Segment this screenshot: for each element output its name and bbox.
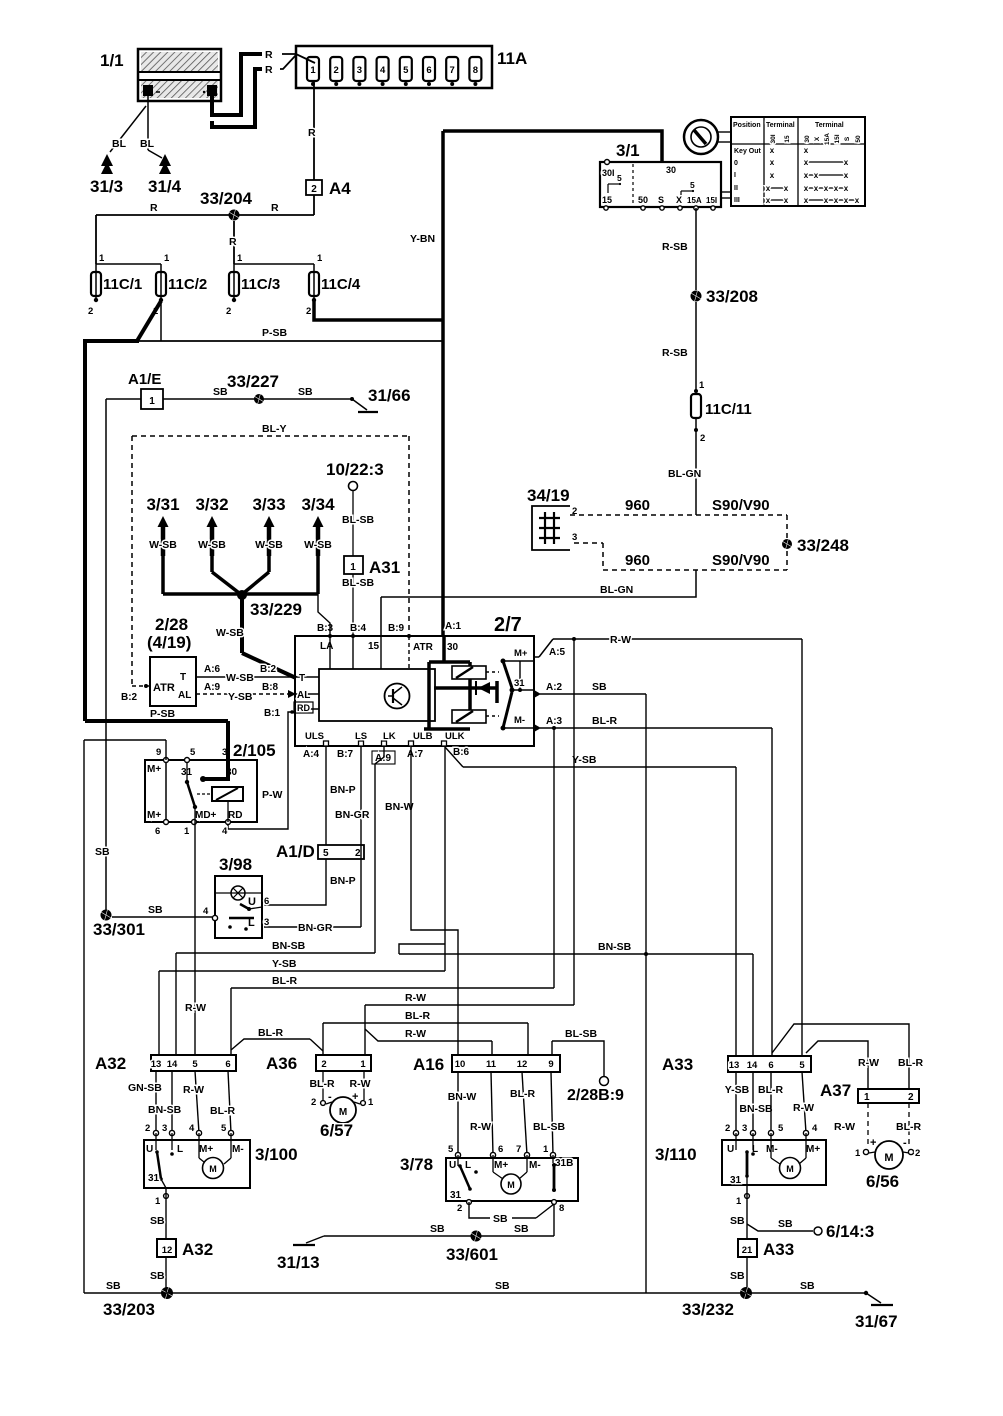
wire SB branch to 6/14:3 xyxy=(747,1218,874,1241)
svg-text:9: 9 xyxy=(548,1059,553,1070)
svg-text:11A: 11A xyxy=(497,49,527,68)
svg-text:5: 5 xyxy=(448,1144,454,1155)
svg-text:SB: SB xyxy=(800,1280,815,1292)
svg-text:P-W: P-W xyxy=(262,789,283,801)
wire BL-SB upper xyxy=(342,490,374,556)
svg-text:SB: SB xyxy=(592,681,607,693)
svg-text:MD+: MD+ xyxy=(195,810,217,821)
wire 11C/4 output to Y-BN xyxy=(314,300,443,320)
svg-text:21: 21 xyxy=(742,1245,753,1256)
connector A36 xyxy=(266,1054,371,1073)
fuse 11C/11 xyxy=(691,380,752,444)
svg-text:B:3: B:3 xyxy=(317,623,334,634)
svg-text:T: T xyxy=(299,673,305,684)
motor 6/57 xyxy=(320,1097,360,1140)
svg-text:3/100: 3/100 xyxy=(255,1145,298,1164)
table ignition positions xyxy=(731,117,865,206)
svg-text:SB: SB xyxy=(148,904,163,916)
svg-text:A:3: A:3 xyxy=(546,716,563,727)
wire 2/105 pin 1 down to A32 pin 5 xyxy=(185,822,206,1055)
svg-text:3/31: 3/31 xyxy=(146,495,179,514)
svg-text:(4/19): (4/19) xyxy=(147,633,191,652)
wire R-SB to fuse 11C/11 xyxy=(662,302,696,391)
svg-text:31/13: 31/13 xyxy=(277,1253,320,1272)
svg-text:Y-SB: Y-SB xyxy=(572,754,597,766)
svg-text:6: 6 xyxy=(155,826,160,837)
svg-text:U: U xyxy=(146,1144,153,1155)
svg-text:SB: SB xyxy=(150,1270,165,1282)
svg-text:1: 1 xyxy=(736,1196,742,1207)
svg-text:A:9: A:9 xyxy=(204,682,221,693)
wires to A37 xyxy=(772,1024,923,1089)
svg-text:7: 7 xyxy=(516,1144,521,1155)
svg-text:R-W: R-W xyxy=(405,992,426,1004)
ground 31/3 xyxy=(90,154,123,196)
svg-text:R-W: R-W xyxy=(793,1102,814,1114)
svg-text:M: M xyxy=(209,1164,217,1174)
svg-text:ATR: ATR xyxy=(153,682,175,694)
svg-text:A33: A33 xyxy=(662,1055,693,1074)
arrow to 3/31 xyxy=(146,495,179,556)
svg-text:S90/V90: S90/V90 xyxy=(712,497,770,514)
svg-text:x: x xyxy=(834,184,839,193)
svg-text:5: 5 xyxy=(323,848,329,859)
svg-text:Position: Position xyxy=(733,122,761,129)
svg-text:1: 1 xyxy=(164,253,170,264)
wire BL-R link A36 2 to A16 12 xyxy=(323,1010,528,1055)
wire P-SB upper horizontal xyxy=(139,327,443,341)
svg-text:2: 2 xyxy=(145,1123,150,1134)
connector A4 pin 2 xyxy=(306,179,351,198)
svg-text:BN-SB: BN-SB xyxy=(272,940,306,952)
svg-text:2: 2 xyxy=(88,306,93,317)
svg-text:33/227: 33/227 xyxy=(227,372,279,391)
svg-text:S: S xyxy=(844,136,851,141)
wire W-SB down to 2/7 T input xyxy=(216,595,296,678)
svg-text:W-SB: W-SB xyxy=(198,539,226,551)
svg-text:33/601: 33/601 xyxy=(446,1245,498,1264)
svg-text:12: 12 xyxy=(517,1059,528,1070)
svg-text:1: 1 xyxy=(864,1092,870,1103)
svg-text:x: x xyxy=(770,158,775,167)
window motor unit 3/78 xyxy=(400,1155,578,1201)
svg-text:W-SB: W-SB xyxy=(304,539,332,551)
wire BL-SB lower to 2/7 B:4 xyxy=(342,574,374,636)
svg-text:2: 2 xyxy=(355,848,361,859)
svg-text:1: 1 xyxy=(699,380,705,391)
svg-text:x: x xyxy=(770,171,775,180)
svg-text:R-W: R-W xyxy=(470,1121,491,1133)
svg-text:1: 1 xyxy=(155,1196,161,1207)
svg-text:14: 14 xyxy=(167,1059,178,1070)
arrow to 3/32 xyxy=(195,495,228,556)
svg-text:31: 31 xyxy=(148,1173,160,1184)
svg-text:A37: A37 xyxy=(820,1081,851,1100)
connector A37 xyxy=(820,1081,919,1103)
svg-text:RD: RD xyxy=(228,810,242,821)
window motor unit 3/110 xyxy=(655,1133,826,1186)
svg-text:R: R xyxy=(271,202,279,214)
svg-text:x: x xyxy=(804,171,809,180)
svg-text:3: 3 xyxy=(162,1123,167,1134)
svg-text:1: 1 xyxy=(368,1097,374,1108)
svg-text:1/1: 1/1 xyxy=(100,51,124,70)
wire dashed 960 S90/V90 upper xyxy=(570,497,787,515)
svg-text:6: 6 xyxy=(426,65,431,76)
connector A33 xyxy=(662,1055,811,1074)
svg-text:BL: BL xyxy=(112,138,127,150)
svg-text:SB: SB xyxy=(778,1218,793,1230)
svg-text:11: 11 xyxy=(486,1059,497,1070)
svg-text:2/7: 2/7 xyxy=(494,614,522,636)
svg-text:BL-GN: BL-GN xyxy=(668,468,701,480)
svg-text:R-W: R-W xyxy=(183,1084,204,1096)
wire R-W from 2/7 A:5 xyxy=(534,634,802,658)
svg-text:GN-SB: GN-SB xyxy=(128,1082,162,1094)
svg-text:S: S xyxy=(658,195,664,205)
svg-text:SB: SB xyxy=(106,1280,121,1292)
fuse 11A-8 xyxy=(469,57,481,86)
ground 31/66 xyxy=(350,386,411,412)
svg-text:50: 50 xyxy=(855,135,862,143)
svg-text:31B: 31B xyxy=(555,1158,573,1169)
fuse 11A-7 xyxy=(446,57,458,86)
svg-text:BL-Y: BL-Y xyxy=(262,423,287,435)
wire battery positive R feeds xyxy=(212,49,315,127)
wires A37 to motor 6/56 xyxy=(834,1103,921,1159)
switch 3/98 xyxy=(203,855,269,938)
svg-text:8: 8 xyxy=(559,1203,564,1214)
svg-text:X: X xyxy=(676,195,682,205)
svg-text:SB: SB xyxy=(493,1213,508,1225)
svg-text:BN-W: BN-W xyxy=(385,801,414,813)
svg-text:3/1: 3/1 xyxy=(616,141,640,160)
fuse 11A-3 xyxy=(353,57,365,86)
svg-text:6: 6 xyxy=(264,896,269,907)
splice 33/601 xyxy=(446,1231,498,1265)
svg-text:SB: SB xyxy=(730,1215,745,1227)
wire R-W right vertical to A33 5 xyxy=(801,639,803,1056)
svg-text:4: 4 xyxy=(203,906,209,917)
wire SB to 33/232 xyxy=(730,1257,747,1293)
svg-text:ATR: ATR xyxy=(413,642,434,653)
svg-text:M+: M+ xyxy=(494,1160,508,1171)
svg-text:2: 2 xyxy=(311,184,317,195)
ground 31/67 xyxy=(855,1291,898,1331)
svg-text:3/78: 3/78 xyxy=(400,1155,433,1174)
svg-text:LA: LA xyxy=(320,641,333,652)
svg-text:BL-R: BL-R xyxy=(758,1084,783,1096)
wire 3/110 pin1 SB down xyxy=(730,1185,749,1239)
svg-text:31: 31 xyxy=(730,1175,742,1186)
svg-text:15I: 15I xyxy=(706,196,717,205)
svg-text:1: 1 xyxy=(360,1059,366,1070)
connector A31 pin 1 xyxy=(344,556,400,577)
svg-text:x: x xyxy=(766,196,771,205)
key symbol of ignition switch xyxy=(684,120,731,198)
svg-text:x: x xyxy=(784,184,789,193)
svg-text:x: x xyxy=(844,184,849,193)
svg-text:-: - xyxy=(903,1137,907,1149)
svg-text:A:7: A:7 xyxy=(407,749,424,760)
central locking unit 2/7 outline xyxy=(295,614,534,746)
wire R-W bus to A36 1 xyxy=(365,637,576,1055)
svg-text:Terminal: Terminal xyxy=(815,122,844,129)
svg-text:1: 1 xyxy=(237,253,243,264)
svg-text:M: M xyxy=(786,1164,794,1174)
wire dashed right leg to 33/248 xyxy=(786,515,788,570)
svg-text:5: 5 xyxy=(690,180,695,190)
svg-text:AL: AL xyxy=(297,690,310,701)
svg-text:31/67: 31/67 xyxy=(855,1312,898,1331)
svg-text:x: x xyxy=(824,184,829,193)
svg-text:31: 31 xyxy=(514,678,525,689)
wire BL-GN from 11C/11 xyxy=(668,418,701,515)
2/105 relay coil xyxy=(212,787,243,822)
wire 3/78 pin2 pin8 SB link xyxy=(457,1200,564,1225)
svg-text:A33: A33 xyxy=(763,1240,794,1259)
svg-text:LS: LS xyxy=(355,731,367,742)
wire BN-P A1/D to 3/98 U xyxy=(264,859,356,905)
wire SB to 33/203 xyxy=(150,1257,166,1293)
svg-text:-: - xyxy=(328,1091,332,1103)
svg-text:x: x xyxy=(770,146,775,155)
svg-text:x: x xyxy=(804,146,809,155)
fuse 11A-6 xyxy=(423,57,435,86)
svg-text:5: 5 xyxy=(192,1059,198,1070)
svg-text:2: 2 xyxy=(306,306,311,317)
svg-text:6/57: 6/57 xyxy=(320,1121,353,1140)
svg-text:13: 13 xyxy=(729,1060,740,1071)
svg-text:2/28: 2/28 xyxy=(155,615,188,634)
svg-text:2: 2 xyxy=(725,1123,730,1134)
svg-text:3/33: 3/33 xyxy=(252,495,285,514)
svg-text:R-W: R-W xyxy=(350,1078,371,1090)
svg-text:x: x xyxy=(814,171,819,180)
svg-text:BL-R: BL-R xyxy=(309,1078,334,1090)
svg-text:6/14:3: 6/14:3 xyxy=(826,1222,874,1241)
svg-text:SB: SB xyxy=(213,386,228,398)
wire BL-R bus xyxy=(231,726,556,1055)
svg-text:M: M xyxy=(339,1107,347,1118)
svg-text:U: U xyxy=(449,1160,456,1171)
svg-text:5: 5 xyxy=(778,1123,784,1134)
svg-text:Terminal: Terminal xyxy=(766,122,795,129)
wire Y-BN vertical xyxy=(410,131,443,636)
svg-text:ULK: ULK xyxy=(445,731,465,742)
wires A36 to motor 6/57 xyxy=(309,1071,374,1108)
wire dashed B:2 stub xyxy=(121,684,150,703)
svg-text:30: 30 xyxy=(666,165,676,175)
svg-text:30: 30 xyxy=(447,642,459,653)
svg-text:SB: SB xyxy=(150,1215,165,1227)
wire 11C/3 to 11C/4 top link xyxy=(234,264,314,272)
svg-text:5: 5 xyxy=(617,173,622,183)
svg-text:10: 10 xyxy=(455,1059,466,1070)
svg-text:33/248: 33/248 xyxy=(797,536,849,555)
svg-text:B:1: B:1 xyxy=(264,708,281,719)
svg-text:6: 6 xyxy=(225,1059,230,1070)
wire Y-SB right vertical to A33 13 xyxy=(735,767,737,1056)
wire SB to 33/601 and ground 31/13 xyxy=(306,1204,554,1243)
2/7 relay thick bus bars xyxy=(424,636,497,729)
svg-text:BL-R: BL-R xyxy=(272,975,297,987)
svg-text:B:6: B:6 xyxy=(453,747,470,758)
svg-text:R-W: R-W xyxy=(610,634,631,646)
wires A32 to 3/100 xyxy=(128,1071,235,1136)
2/105 switch arm xyxy=(185,762,212,822)
svg-text:R-W: R-W xyxy=(858,1057,879,1069)
svg-text:3: 3 xyxy=(742,1123,747,1134)
svg-text:x: x xyxy=(844,171,849,180)
svg-text:M+: M+ xyxy=(199,1144,213,1155)
svg-text:15: 15 xyxy=(784,135,791,143)
2/7 relay contacts xyxy=(501,648,535,731)
svg-text:11C/3: 11C/3 xyxy=(241,276,280,293)
wire dashed 960 S90/V90 lower xyxy=(574,543,787,570)
svg-text:R-W: R-W xyxy=(405,1028,426,1040)
svg-text:15A: 15A xyxy=(824,133,831,145)
svg-text:BN-SB: BN-SB xyxy=(148,1104,182,1116)
svg-text:33/203: 33/203 xyxy=(103,1300,155,1319)
svg-text:R-SB: R-SB xyxy=(662,241,688,253)
svg-text:6/56: 6/56 xyxy=(866,1172,899,1191)
svg-text:11C/4: 11C/4 xyxy=(321,276,361,293)
arrow to 3/34 xyxy=(301,495,335,556)
svg-text:1: 1 xyxy=(310,65,316,76)
wire BL-SB from A16 9 to 2/28B:9 xyxy=(552,1028,624,1104)
wire BN-P ULS to A1/D 5 xyxy=(326,746,356,845)
svg-text:1: 1 xyxy=(543,1144,549,1155)
wires A33 to 3/110 xyxy=(725,1072,818,1136)
svg-text:M-: M- xyxy=(766,1144,778,1155)
svg-text:BL: BL xyxy=(140,138,155,150)
svg-text:A4: A4 xyxy=(329,179,351,198)
svg-text:M: M xyxy=(884,1152,893,1164)
fuse 11C/2 xyxy=(153,253,207,317)
svg-text:1: 1 xyxy=(855,1148,861,1159)
svg-text:3/34: 3/34 xyxy=(301,495,335,514)
2/7 bottom pin squares xyxy=(303,731,470,764)
splice 33/203 xyxy=(103,1287,173,1319)
svg-text:15A: 15A xyxy=(687,196,702,205)
svg-text:11C/1: 11C/1 xyxy=(103,276,142,293)
svg-text:M+: M+ xyxy=(514,648,528,659)
svg-text:2: 2 xyxy=(700,433,705,444)
svg-text:Y-SB: Y-SB xyxy=(725,1084,750,1096)
svg-text:BL-R: BL-R xyxy=(210,1105,235,1117)
svg-text:+: + xyxy=(870,1137,876,1149)
svg-text:BL-SB: BL-SB xyxy=(342,514,374,526)
svg-text:3/32: 3/32 xyxy=(195,495,228,514)
svg-text:2/28B:9: 2/28B:9 xyxy=(567,1087,624,1104)
svg-text:x: x xyxy=(824,196,829,205)
svg-text:BL-SB: BL-SB xyxy=(342,577,374,589)
svg-text:2: 2 xyxy=(334,65,339,76)
svg-text:1: 1 xyxy=(317,253,323,264)
svg-text:Y-SB: Y-SB xyxy=(272,958,297,970)
wire BN-SB right bus to A33 14 xyxy=(399,941,753,1056)
svg-text:M: M xyxy=(507,1180,515,1190)
svg-text:BN-P: BN-P xyxy=(330,875,356,887)
svg-text:33/208: 33/208 xyxy=(706,287,758,306)
wire BL-R jumper A32 6 to A36 2 xyxy=(231,1027,323,1051)
svg-text:R-W: R-W xyxy=(834,1121,855,1133)
svg-text:M-: M- xyxy=(232,1144,244,1155)
svg-text:AL: AL xyxy=(178,690,191,701)
svg-text:BN-P: BN-P xyxy=(330,784,356,796)
svg-text:3: 3 xyxy=(264,917,269,928)
svg-text:3/98: 3/98 xyxy=(219,855,252,874)
relay 2/105 xyxy=(145,741,276,837)
svg-text:14: 14 xyxy=(747,1060,758,1071)
splice 33/232 xyxy=(682,1287,752,1319)
ground 31/13 xyxy=(277,1245,320,1272)
wire R to 11C/3 xyxy=(229,221,237,264)
svg-text:1: 1 xyxy=(149,396,155,407)
connector A16 xyxy=(413,1055,560,1074)
svg-text:R: R xyxy=(150,202,158,214)
svg-text:BL-SB: BL-SB xyxy=(533,1121,565,1133)
svg-text:x: x xyxy=(784,196,789,205)
svg-text:2: 2 xyxy=(321,1059,326,1070)
svg-text:A:6: A:6 xyxy=(204,664,221,675)
svg-text:Y-BN: Y-BN xyxy=(410,233,435,245)
connector A32 pin 12 xyxy=(157,1239,213,1259)
svg-text:P-SB: P-SB xyxy=(150,708,176,720)
svg-text:RD: RD xyxy=(297,703,310,713)
svg-text:33/204: 33/204 xyxy=(200,189,253,208)
svg-text:LK: LK xyxy=(383,731,396,742)
splice 33/301 and SB wire xyxy=(93,904,212,939)
svg-text:SB: SB xyxy=(730,1270,745,1282)
svg-text:R: R xyxy=(229,236,237,248)
svg-text:BL-R: BL-R xyxy=(896,1121,921,1133)
motor 6/56 xyxy=(866,1141,909,1191)
svg-text:2: 2 xyxy=(908,1092,914,1103)
svg-text:T: T xyxy=(180,672,186,683)
control unit 2/28 (4/19) ATR xyxy=(147,615,196,706)
fuse 11C/4 xyxy=(306,253,361,317)
svg-text:R: R xyxy=(265,49,273,61)
svg-text:B:7: B:7 xyxy=(337,749,354,760)
wire A1/E vertical to 33/301 xyxy=(105,399,107,915)
svg-text:SB: SB xyxy=(95,846,110,858)
svg-text:A31: A31 xyxy=(369,558,400,577)
svg-text:13: 13 xyxy=(151,1059,162,1070)
svg-text:4: 4 xyxy=(189,1123,195,1134)
svg-text:15: 15 xyxy=(602,195,612,205)
wire BN-GR LS to 3/98 L xyxy=(264,746,370,934)
svg-text:BL-R: BL-R xyxy=(258,1027,283,1039)
wire thick P-SB to 2/105 pin 3 xyxy=(85,708,228,782)
wire SB from 2/7 A:2 xyxy=(534,681,646,698)
svg-text:2/105: 2/105 xyxy=(233,741,276,760)
wire SB from A1/E to ground 31/66 xyxy=(106,386,352,399)
svg-text:x: x xyxy=(855,196,860,205)
window motor unit 3/100 xyxy=(144,1133,298,1188)
splice 33/227 xyxy=(227,372,279,404)
svg-text:BN-SB: BN-SB xyxy=(739,1103,773,1115)
svg-text:BN-GR: BN-GR xyxy=(335,809,370,821)
svg-text:x: x xyxy=(766,184,771,193)
2/7 relay coils xyxy=(452,666,499,723)
wire BL-R from 2/7 A:3 xyxy=(534,715,772,732)
wire A4 to R bus xyxy=(313,195,315,215)
fuse 11A-2 xyxy=(330,57,342,86)
svg-text:12: 12 xyxy=(162,1245,173,1256)
svg-text:M+: M+ xyxy=(147,810,161,821)
